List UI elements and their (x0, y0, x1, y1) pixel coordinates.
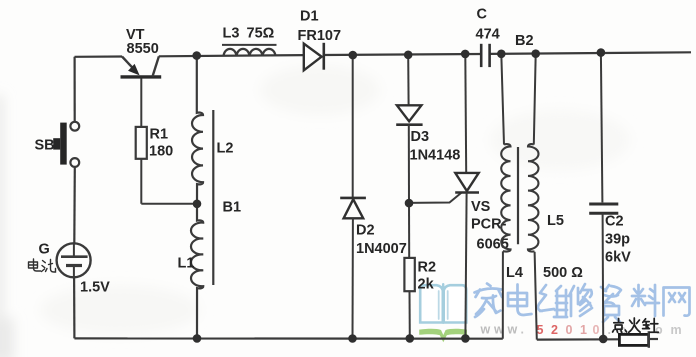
diode D1 FR107 (304, 43, 324, 71)
svg-text:L5: L5 (547, 213, 564, 229)
wire battery to bottom rail (73, 277, 76, 338)
junction node dots (192, 48, 607, 343)
watermark book icon (419, 284, 467, 342)
svg-text:D1: D1 (300, 9, 319, 25)
wire VS anode (464, 54, 467, 173)
svg-text:w: w (507, 323, 518, 337)
node R2 bottom (406, 334, 415, 343)
wire SB to battery (73, 167, 76, 243)
svg-text:G: G (39, 242, 50, 258)
svg-text:o: o (655, 323, 663, 337)
node C/L4 (497, 50, 506, 59)
transistor VT (121, 56, 162, 127)
inductor L4 (501, 144, 510, 251)
svg-text:1: 1 (580, 323, 587, 337)
node VS bottom (461, 334, 470, 343)
wire D2 to bottom rail (352, 218, 354, 338)
svg-text:FR107: FR107 (298, 28, 342, 44)
svg-text:6kV: 6kV (605, 250, 631, 266)
svg-text:B1: B1 (223, 200, 242, 216)
node D2 bottom (348, 334, 357, 343)
wire L4 top lead (501, 54, 504, 145)
inductor L1 (191, 204, 203, 339)
char 资 (601, 285, 621, 322)
char 修 (569, 284, 592, 316)
wire C2 bottom lead (602, 213, 605, 339)
svg-text:L1: L1 (178, 256, 195, 272)
node collector/L2/L3 (192, 51, 201, 60)
svg-text:180: 180 (149, 143, 173, 159)
wire gate node to R2 (408, 203, 410, 258)
svg-text:0: 0 (593, 323, 600, 337)
char 料 (632, 285, 659, 316)
svg-text:6065: 6065 (477, 237, 509, 253)
svg-text:8550: 8550 (127, 41, 159, 57)
svg-text:L4: L4 (506, 265, 523, 281)
svg-text:1N4148: 1N4148 (410, 148, 461, 164)
wire L4 bottom lead (502, 251, 504, 338)
thyristor VS (455, 173, 479, 193)
wire bottom rail right section (537, 338, 620, 341)
watermark url www.52010.com (480, 323, 682, 338)
node D3 top (404, 51, 413, 60)
transformer core B1 (212, 110, 214, 285)
label 点火针 (613, 318, 659, 332)
char 家 (475, 284, 503, 318)
node gate/R2/D3 (405, 199, 414, 208)
wire top rail C to right end (490, 52, 691, 54)
node C2 top (597, 48, 606, 57)
svg-text:L3: L3 (223, 26, 240, 42)
node L5 top (531, 49, 540, 58)
char 电 (508, 285, 532, 316)
svg-text:75Ω: 75Ω (247, 26, 275, 42)
svg-text:39p: 39p (605, 232, 630, 248)
diode D2 branch wire (352, 55, 354, 198)
resistor R2 (404, 258, 414, 291)
wire top rail D1 to C (324, 54, 481, 55)
node L1 bottom (193, 334, 202, 343)
wire needle output (649, 338, 658, 340)
diode D3 (396, 105, 422, 124)
resistor R1 (136, 127, 147, 159)
wire thyristor gate (409, 193, 462, 203)
wire D3 to gate node (408, 125, 410, 204)
node B1 tap (193, 200, 202, 209)
node D1/D2 (349, 51, 358, 60)
wire C2 top lead (601, 53, 603, 203)
wire left vertical to SB (73, 57, 75, 122)
char 维 (538, 285, 567, 317)
wire top rail left (emitter side) (75, 55, 123, 57)
svg-text:m: m (671, 323, 682, 337)
svg-text:1N4007: 1N4007 (356, 241, 407, 257)
inductor L5 (528, 144, 539, 252)
char 网 (664, 288, 690, 316)
svg-text:R1: R1 (150, 126, 169, 142)
diode D3 branch wire (407, 55, 409, 106)
switch SB (53, 122, 79, 167)
node C2 bottom (599, 335, 608, 344)
svg-text:R2: R2 (418, 260, 437, 276)
wire bottom rail left section (74, 337, 502, 340)
svg-text:0: 0 (566, 323, 573, 337)
svg-text:.: . (521, 323, 524, 337)
svg-text:D3: D3 (411, 129, 430, 145)
ignition needle box (619, 334, 648, 345)
svg-text:2: 2 (551, 323, 558, 337)
svg-text:1.5V: 1.5V (80, 280, 110, 296)
battery G (57, 243, 91, 277)
svg-text:VS: VS (471, 199, 491, 215)
node VS anode top (461, 50, 470, 59)
label 电池 (29, 259, 56, 272)
transformer core B2 (517, 147, 519, 244)
svg-text:D2: D2 (356, 223, 375, 239)
svg-text:C2: C2 (605, 214, 624, 230)
svg-text:w: w (480, 323, 491, 337)
capacitor C2 (589, 204, 618, 213)
wire VS cathode to bottom rail (465, 193, 466, 339)
svg-text:L2: L2 (217, 141, 234, 157)
svg-text:474: 474 (476, 27, 500, 43)
svg-text:B2: B2 (515, 33, 534, 49)
wire R2 to bottom rail (409, 291, 411, 338)
diode D2 (340, 198, 366, 218)
watermark text 家电维修资料网 (475, 284, 690, 323)
svg-text:SB: SB (35, 138, 55, 154)
ignition needle electrode (648, 331, 650, 348)
capacitor C 474 (481, 44, 489, 67)
svg-text:500 Ω: 500 Ω (543, 265, 583, 281)
svg-text:C: C (477, 7, 488, 23)
wire L5 top lead (534, 54, 536, 145)
inductor L2 (192, 56, 203, 204)
inductor L3 (222, 45, 277, 56)
wire R1 to tap (141, 159, 197, 204)
svg-text:2k: 2k (418, 277, 435, 293)
wire top rail mid (collector to D1) (159, 55, 304, 56)
svg-text:.: . (608, 323, 611, 337)
wire L5 bottom lead (535, 252, 537, 340)
